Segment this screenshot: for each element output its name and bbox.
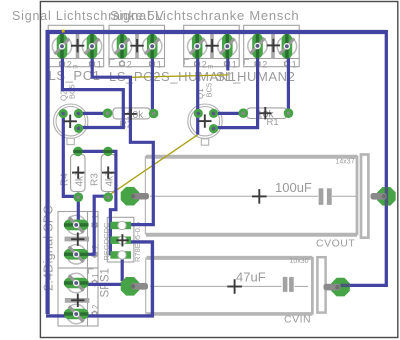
polarity bar connector [271, 34, 275, 59]
svg-text:10x30: 10x30 [290, 258, 309, 265]
pad HUMAN1-2 [192, 34, 203, 59]
airwire Q1 base to R3 [108, 135, 197, 196]
pad R3 bottom [103, 192, 113, 202]
wire GND top rail and loop [48, 32, 387, 314]
svg-text:SPS1: SPS1 [100, 268, 112, 297]
pad ring [248, 36, 267, 55]
origin R1 cross [259, 112, 271, 114]
svg-text:R1: R1 [267, 117, 279, 128]
pad LS_PC2S-1 [147, 34, 158, 59]
pad R4 top [73, 147, 83, 157]
pad R4 bottom [74, 192, 84, 202]
pad Q1 base [194, 109, 203, 118]
resistor R3 body [90, 151, 116, 197]
svg-text:Signal Lichtschranke Mensch: Signal Lichtschranke Mensch [110, 8, 299, 23]
origin Q1 cross [198, 120, 211, 122]
svg-text:CVIN: CVIN [284, 314, 311, 326]
svg-text:2: 2 [91, 304, 100, 309]
pad Q1 emitter [209, 124, 218, 133]
svg-text:BC5: BC5 [68, 84, 77, 99]
wire Q2 base to R4 [63, 114, 74, 197]
pin 1 label LS_PC1 [90, 61, 95, 66]
capacitor symbol CVIN [283, 277, 288, 292]
origin CVOUT cross [252, 195, 267, 197]
pin labels SPS1 [92, 223, 97, 228]
bracket mark connector 3 [184, 59, 189, 64]
pad ring [67, 215, 86, 234]
pad ring [188, 37, 207, 56]
pad ring [52, 37, 71, 56]
stripe R4 top [73, 150, 83, 153]
SPS1 strip divider [87, 212, 89, 327]
pad U1 pin2 [110, 236, 131, 244]
pad R1 right [284, 108, 294, 118]
connector LS_PC2S outline [109, 25, 165, 66]
wire R4 to SPS1 pin1 [77, 197, 80, 225]
origin SPS1 upper cross [71, 238, 84, 240]
pin 1 label HUMAN2 [285, 61, 290, 66]
pin 2 label LS_PC2S [120, 61, 125, 66]
svg-text:14x37: 14x37 [336, 159, 355, 166]
pin 2 label LS_PC1 [60, 61, 65, 66]
polarity bar SPS1 upper [65, 237, 90, 242]
pad CVOUT negative (left) [121, 187, 140, 206]
origin CVIN cross [227, 286, 242, 288]
origin R2 cross [124, 113, 136, 115]
pad ring [277, 37, 296, 56]
transistor Q1 outline [188, 104, 222, 145]
pad HUMAN1-1 [222, 34, 233, 59]
pad Q2 base [59, 109, 68, 118]
pad LS_PC1-2 [87, 34, 98, 59]
svg-text:47uF: 47uF [236, 270, 266, 285]
origin R4 cross [72, 172, 84, 174]
origin HUMAN1 cross [205, 45, 218, 47]
pad Q2 emitter [74, 124, 83, 133]
pad R1 left [239, 108, 249, 118]
pad Q1 collector [209, 109, 218, 118]
pad CVIN positive (right) [331, 278, 350, 297]
wire LS_PC1 pin1 to Q2 emitter [62, 46, 123, 128]
origin Q2 cross [64, 120, 77, 122]
resistor R1 body [243, 108, 288, 128]
wire R4/R3 tops to module pin1 [78, 151, 116, 255]
origin R3 cross [102, 172, 114, 174]
connector SPS1 outline upper [58, 212, 98, 269]
pin 1 label LS_PC2S [150, 61, 155, 66]
svg-text:HUMAN2: HUMAN2 [237, 69, 296, 84]
wire LS_PC1 pin2 to module pin1 [92, 46, 153, 225]
wire right side loop to CVIN+ [342, 30, 387, 285]
connector LS_PC1 outline [48, 25, 103, 66]
capacitor CVIN outline [146, 257, 326, 315]
pad ring [82, 37, 101, 56]
wire Q2 collector to R2 [79, 112, 108, 115]
pin 1 label HUMAN1 [225, 61, 230, 66]
polarity bar connector [76, 34, 80, 59]
pin 2 label HUMAN1 [195, 61, 200, 66]
origin HUMAN2 cross [267, 44, 280, 46]
resistor R4 body [59, 151, 85, 197]
wire module pin3 to CVIN- [121, 256, 124, 281]
wire R3 bottom to SPS1 pin2 [78, 196, 108, 254]
pin 2 label HUMAN2 [255, 61, 260, 66]
svg-text:R3: R3 [90, 173, 101, 186]
wire HUMAN2 pin1 to R1 [287, 46, 290, 113]
origin LS_PC2S cross [130, 45, 143, 47]
pad SPS1-2 [64, 249, 89, 260]
origin SPS1 lower cross [71, 299, 84, 301]
pad Q2 collector [74, 109, 83, 118]
bracket mark connector 2 [110, 59, 115, 64]
pad ring [218, 37, 237, 56]
capacitor symbol CVOUT [319, 188, 324, 205]
pad HUMAN2-1 [282, 34, 293, 59]
pad ring [112, 37, 131, 56]
pad ring [67, 273, 86, 292]
svg-text:100uF: 100uF [275, 180, 312, 195]
pad SPS1-1 [64, 220, 89, 231]
wire bottom rail to module pin2 [46, 242, 152, 316]
pad CVOUT positive (right) [377, 187, 396, 206]
origin LS_PC1 cross [71, 45, 84, 47]
origin U1 cross [116, 239, 128, 241]
regulator U1 R78E05 outline [107, 217, 134, 262]
pad R3 top [103, 147, 113, 157]
connector HUMAN2 outline [244, 25, 300, 66]
pad LS_PC1-1 [57, 34, 68, 59]
svg-text:CVOUT: CVOUT [316, 238, 355, 250]
connector SPS1 outline lower [58, 268, 98, 326]
stripe R3 top [103, 150, 113, 153]
airwire stub dot [62, 30, 65, 33]
svg-text:BC5: BC5 [205, 83, 214, 98]
airwire 5V net (horizontal) [131, 75, 229, 77]
polarity bar connector [135, 34, 139, 59]
bracket mark connector 4 [244, 59, 249, 64]
pad CVIN negative (left) [121, 277, 140, 296]
transistor Q2 outline [53, 104, 87, 145]
wire Q1 collector to R1 [214, 112, 244, 115]
polarity bar SPS1 lower [65, 298, 90, 303]
wire LS_PC2S pin1 to R2 [151, 46, 154, 114]
pad LS_PC2S-2 [117, 34, 128, 59]
polarity bar connector [210, 34, 214, 59]
wire HUMAN1 pin1 to Q1 base [196, 46, 199, 135]
pad ring [67, 304, 86, 323]
bracket mark SPS1 strip [88, 269, 93, 274]
pad U1 pin1 [110, 222, 131, 230]
wire HUMAN2 pin2 to Q1 emitter [215, 46, 258, 128]
wire SPS1 pin3 to CVIN- [76, 283, 127, 286]
pad ring [67, 245, 86, 264]
wire HUMAN1 pin2 stub [226, 46, 229, 71]
pad R2 right [149, 109, 159, 119]
connector HUMAN1 outline [184, 25, 240, 66]
pad ring [143, 37, 162, 56]
capacitor CVOUT outline [145, 155, 368, 238]
pad R2 left [103, 108, 113, 118]
pad SPS1-3 [64, 278, 89, 289]
resistor R2 body [108, 108, 154, 131]
pad U1 pin3 [110, 251, 131, 259]
pad HUMAN2-2 [252, 34, 263, 59]
pad SPS1-4 [64, 309, 89, 320]
